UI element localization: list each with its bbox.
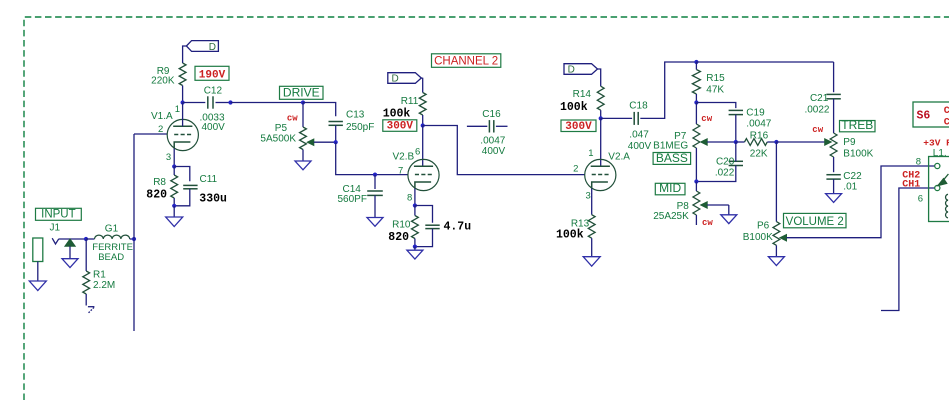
connector J1 label	[50, 223, 61, 234]
wire P5 bottom lead	[302, 150, 304, 162]
label 5A500K	[260, 133, 296, 144]
svg-text:300V: 300V	[565, 121, 592, 133]
resistor R10	[412, 216, 419, 239]
svg-text:820: 820	[388, 231, 409, 244]
svg-text:3: 3	[586, 190, 591, 201]
wire C20 top lead	[735, 142, 737, 161]
svg-text:300V: 300V	[387, 121, 414, 133]
label R9	[157, 66, 170, 77]
svg-text:S6: S6	[917, 110, 931, 123]
label B100K (P6)	[743, 232, 773, 243]
svg-text:C19: C19	[746, 107, 765, 118]
wire C19 bottom lead	[735, 115, 737, 142]
wire P8 top lead	[695, 182, 697, 192]
wire C22 bottom lead	[833, 179, 835, 194]
svg-text:.022: .022	[715, 168, 735, 179]
node V2.A plate	[599, 116, 603, 120]
svg-text:190V: 190V	[199, 70, 226, 82]
label .022	[715, 168, 735, 179]
label 220K	[151, 75, 175, 86]
svg-text:C12: C12	[204, 86, 223, 97]
label S6	[917, 110, 931, 123]
potentiometer P5	[300, 127, 307, 150]
svg-text:560PF: 560PF	[338, 194, 367, 205]
wire R8 leads	[173, 167, 175, 206]
wire P6 bottom lead	[775, 245, 777, 256]
wire J1 tip to node A	[59, 238, 86, 240]
node R15 bottom	[694, 100, 698, 104]
label C12	[204, 86, 223, 97]
label CH1	[902, 179, 920, 190]
potentiometer P7	[693, 124, 700, 148]
label C21	[810, 93, 829, 104]
wire R9 to plate node	[182, 86, 184, 103]
node after C12	[228, 100, 232, 104]
wire C14 bottom lead	[374, 195, 376, 217]
svg-text:D: D	[209, 42, 216, 53]
label .0047 (C19)	[746, 119, 771, 130]
label C16	[482, 109, 501, 120]
capacitor C22	[826, 175, 840, 179]
svg-text:2: 2	[158, 124, 163, 135]
label CH2	[902, 170, 920, 181]
svg-text:C22: C22	[843, 171, 862, 182]
svg-text:R15: R15	[706, 73, 725, 84]
label V2.A	[608, 151, 630, 162]
svg-text:8: 8	[407, 192, 412, 203]
label V1.A	[151, 111, 173, 122]
wire R11 to plate node	[422, 115, 424, 126]
label 400V (C12)	[202, 122, 226, 133]
svg-text:CHANNEL 2: CHANNEL 2	[434, 56, 498, 68]
label FERRITE	[92, 242, 133, 253]
node P5 wiper/C13	[334, 140, 338, 144]
wire flag to R14	[598, 69, 601, 86]
label C19	[746, 107, 765, 118]
pin 6 of relay	[935, 185, 940, 190]
ground at V2.B cathode	[407, 250, 423, 259]
wire flag D to R9	[183, 46, 187, 63]
label 4.7u	[444, 220, 472, 233]
label 330u	[199, 192, 227, 205]
svg-text:.0047: .0047	[480, 135, 505, 146]
svg-text:V2.A: V2.A	[608, 151, 630, 162]
capacitor C14	[367, 191, 383, 195]
label C20	[716, 157, 735, 168]
wire P6 wiper to relay pin 8	[787, 166, 935, 238]
label cw (P7)	[701, 114, 712, 124]
node on grid bus at G1	[132, 237, 136, 241]
capacitor C19	[729, 110, 743, 114]
label BEAD	[98, 252, 124, 263]
wire R14 to plate node	[600, 110, 602, 118]
wiper of P5	[307, 139, 335, 145]
capacitor C21	[826, 94, 840, 98]
svg-text:C16: C16	[482, 109, 501, 120]
label 100k (R14)	[560, 101, 588, 114]
label 820 (R10)	[388, 231, 409, 244]
wire C12 node to DRIVE node	[231, 102, 304, 104]
label P7	[674, 131, 687, 142]
node C14 tap	[373, 173, 377, 177]
wire C11 bottom lead	[174, 189, 190, 206]
node P7/P8/C20	[694, 179, 698, 183]
label R10	[392, 219, 411, 230]
label 300V (V2.B plate)	[383, 120, 417, 133]
pin 6 of V2.B	[415, 146, 420, 157]
ground at P8 wiper	[721, 215, 737, 224]
svg-text:+3V R: +3V R	[923, 137, 949, 148]
label 22K	[750, 148, 768, 159]
tube V2.B	[408, 159, 439, 190]
wire C13 bottom to wiper node	[335, 125, 337, 142]
svg-text:R11: R11	[401, 96, 419, 107]
resistor R9	[179, 63, 186, 86]
capacitor C10 4.7u	[425, 225, 439, 228]
inductor G1 ferrite bead	[95, 235, 130, 239]
capacitor C12	[208, 96, 213, 108]
node DRIVE top	[301, 100, 305, 104]
capacitor C20	[729, 161, 743, 165]
label cw (P5)	[287, 113, 298, 123]
svg-text:J1: J1	[50, 223, 61, 234]
pin 8 of relay	[935, 163, 940, 168]
resistor R11	[419, 93, 426, 116]
svg-text:1: 1	[588, 148, 593, 159]
label .0047 (C16)	[480, 135, 505, 146]
wire V2.B plate to V2.A grid	[423, 126, 585, 175]
capacitor C18	[634, 112, 638, 125]
wire to V1.A cathode ground	[173, 206, 175, 217]
node V2.B plate	[421, 123, 425, 127]
svg-text:C18: C18	[629, 101, 648, 112]
wire R10 leads	[414, 206, 416, 247]
svg-text:C20: C20	[716, 157, 735, 168]
label .047	[629, 129, 649, 140]
label R8	[153, 177, 166, 188]
wire C20 bottom to P7 bottom node	[696, 166, 735, 182]
label P6	[757, 220, 770, 231]
label CH (S6 top)	[944, 106, 949, 117]
label R15	[706, 73, 725, 84]
label +3V R	[923, 137, 949, 148]
node R16/P6/P9-wiper	[774, 140, 778, 144]
wire flag to R11	[421, 78, 422, 93]
wire P8 bottom stub	[695, 215, 697, 225]
wire grid bus to V1.A grid	[134, 133, 167, 135]
flag D (V2.B plate supply)	[388, 73, 422, 85]
label 820 (R8)	[146, 188, 167, 201]
tube V2.A	[585, 159, 616, 190]
pin 8 of V2.B	[407, 192, 412, 203]
node V1.A cathode	[172, 164, 176, 168]
svg-text:CH: CH	[944, 106, 949, 117]
wiper of P8	[701, 202, 729, 208]
wire V2.A cathode lead	[591, 189, 593, 215]
label TREB	[840, 118, 876, 132]
svg-text:8: 8	[916, 156, 921, 167]
ground at V1.A cathode	[166, 217, 183, 227]
pin 7 of V2.B	[398, 165, 403, 176]
label MID	[655, 181, 685, 195]
label DRIVE	[280, 86, 324, 100]
pin 1 of V1.A	[175, 104, 180, 115]
label 8 (relay pin)	[916, 156, 921, 167]
relay coil L1	[946, 194, 948, 218]
svg-text:cw: cw	[701, 114, 712, 124]
svg-text:VOLUME 2: VOLUME 2	[786, 216, 844, 228]
svg-text:B100K: B100K	[843, 148, 873, 159]
svg-text:220K: 220K	[151, 75, 175, 86]
wire R15 node to C19	[696, 103, 735, 109]
connector J1 jack body	[33, 238, 43, 262]
svg-text:400V: 400V	[628, 141, 652, 152]
relay L1 box	[929, 157, 949, 222]
svg-text:5A500K: 5A500K	[260, 133, 296, 144]
wire V1.A cathode lead	[173, 149, 175, 167]
svg-text:330u: 330u	[199, 192, 227, 205]
wire P9 bottom lead	[833, 157, 835, 172]
svg-text:25A25K: 25A25K	[653, 211, 689, 222]
label 6 (relay pin)	[918, 193, 923, 204]
wire R16 leads	[736, 141, 777, 143]
pin 3 of V2.A	[586, 190, 591, 201]
grid bus wire (vertical)	[133, 134, 135, 331]
label C14	[343, 184, 362, 195]
pin 1 of V2.A	[588, 148, 593, 159]
svg-text:R14: R14	[573, 89, 592, 100]
svg-text:R8: R8	[153, 177, 166, 188]
svg-text:C21: C21	[810, 93, 829, 104]
wire P9 wiper run	[776, 141, 825, 143]
svg-text:BEAD: BEAD	[98, 252, 124, 263]
potentiometer P8	[693, 191, 700, 215]
svg-text:.047: .047	[629, 129, 649, 140]
capacitor C11	[183, 185, 197, 188]
svg-text:BASS: BASS	[656, 151, 688, 165]
flag D (V2.A plate supply)	[564, 64, 598, 76]
svg-text:22K: 22K	[750, 148, 768, 159]
svg-text:7: 7	[398, 165, 403, 176]
svg-text:1: 1	[175, 104, 180, 115]
label R11	[401, 96, 419, 107]
label 2.2M	[93, 280, 115, 291]
ground at R13	[583, 257, 600, 267]
wire P6 top lead	[775, 142, 777, 222]
wire node A to G1	[86, 238, 95, 240]
node A (J1/G1/R1 junction)	[84, 237, 88, 241]
svg-text:R10: R10	[392, 219, 411, 230]
svg-text:2.2M: 2.2M	[93, 280, 115, 291]
wire top bus to C21	[696, 61, 833, 63]
label 400V (C18)	[628, 141, 652, 152]
svg-text:cw: cw	[702, 218, 713, 228]
ground at C22	[826, 194, 842, 203]
svg-text:P6: P6	[757, 220, 770, 231]
wire P8 wiper to ground	[728, 205, 730, 215]
node V2.B cathode	[413, 203, 417, 207]
label R1	[93, 270, 106, 281]
label .0022	[804, 104, 829, 115]
svg-text:R16: R16	[750, 131, 769, 142]
svg-text:G1: G1	[105, 224, 119, 235]
svg-text:TREB: TREB	[841, 118, 873, 132]
wiper of P7	[701, 139, 736, 145]
wire C18 to tone stack top	[640, 62, 696, 118]
svg-text:B100K: B100K	[743, 232, 773, 243]
svg-text:820: 820	[146, 188, 167, 201]
wire V2.B cathode lead	[414, 189, 416, 206]
label R14	[573, 89, 592, 100]
label 100k (R11)	[383, 107, 411, 120]
svg-text:CH1: CH1	[902, 179, 920, 190]
svg-text:MID: MID	[659, 181, 681, 195]
label S6 box	[913, 102, 949, 127]
svg-text:P5: P5	[275, 123, 288, 134]
label CHANNEL 2	[432, 54, 501, 68]
resistor R15	[692, 70, 700, 95]
pin 2 of V1.A	[158, 124, 163, 135]
ground at input arrow	[62, 259, 78, 268]
svg-text:.0047: .0047	[746, 119, 771, 130]
chassis ground at R1	[88, 307, 95, 314]
svg-text:V1.A: V1.A	[151, 111, 173, 122]
label 190V (node voltage)	[195, 66, 229, 81]
wire C18 left lead	[601, 117, 632, 119]
svg-text:400V: 400V	[482, 146, 506, 157]
svg-text:D: D	[391, 74, 398, 85]
wire P7 top lead	[695, 103, 697, 125]
label VOLUME 2	[784, 213, 847, 228]
wire to V2.B cathode ground	[414, 247, 416, 251]
label P5	[275, 123, 288, 134]
svg-text:3: 3	[166, 152, 171, 163]
tube V1.A	[167, 119, 198, 150]
svg-text:cw: cw	[287, 113, 298, 123]
node tone stack top	[694, 60, 698, 64]
resistor R16	[745, 139, 768, 146]
label .0033	[200, 112, 225, 123]
resistor R1	[83, 271, 90, 294]
svg-text:cw: cw	[812, 125, 823, 135]
wire C21 to P9	[833, 99, 835, 133]
label CH (S6 bottom)	[944, 117, 949, 128]
svg-text:CH: CH	[944, 117, 949, 128]
wire cathode node to 4.7u cap	[415, 206, 433, 223]
svg-text:D: D	[568, 65, 575, 76]
wire J1 body to ground	[37, 262, 39, 282]
label 100k (R13)	[556, 229, 584, 242]
svg-text:250pF: 250pF	[346, 122, 374, 133]
connector J1 tip contact	[52, 238, 59, 244]
label V2.B	[393, 151, 415, 162]
wire R1 bottom lead	[85, 294, 87, 306]
svg-text:4.7u: 4.7u	[444, 220, 472, 233]
wire 4.7u bottom lead	[415, 229, 433, 247]
svg-text:2: 2	[573, 163, 578, 174]
label B100K (P9)	[843, 148, 873, 159]
wire V1.A plate lead	[182, 103, 184, 127]
label C13	[346, 110, 365, 121]
ground at P5	[295, 161, 311, 170]
label 250pF	[346, 122, 374, 133]
flag D (V1.A plate supply)	[186, 41, 218, 53]
wiper of P9	[825, 139, 832, 145]
label BASS	[653, 151, 691, 165]
svg-text:P9: P9	[843, 137, 856, 148]
svg-text:INPUT: INPUT	[41, 209, 76, 221]
svg-text:6: 6	[918, 193, 923, 204]
label 47K	[706, 84, 724, 95]
wire plate node to C12	[183, 102, 206, 104]
label C22	[843, 171, 862, 182]
wire P7 bottom lead	[695, 148, 697, 182]
wire V2.B plate lead	[422, 126, 424, 167]
resistor R8	[171, 175, 178, 198]
wire relay pin 6 run	[881, 188, 935, 311]
potentiometer P9	[830, 133, 837, 157]
label R13	[571, 218, 590, 229]
label C11	[200, 174, 218, 185]
svg-text:C13: C13	[346, 110, 365, 121]
wire DRIVE node to C13 corner	[303, 103, 336, 117]
wire wiper node to V2.B grid	[336, 142, 409, 174]
wire cathode node to C11	[174, 167, 190, 182]
relay switch arm	[938, 174, 949, 186]
wire C12 to stub node	[216, 102, 231, 104]
ground at P6	[768, 257, 784, 266]
label INPUT	[36, 208, 82, 220]
label 400V (C16)	[482, 146, 506, 157]
node R10 bottom	[413, 245, 417, 249]
svg-text:400V: 400V	[202, 122, 226, 133]
label P9	[843, 137, 856, 148]
svg-text:.01: .01	[843, 181, 857, 192]
svg-text:DRIVE: DRIVE	[283, 86, 320, 100]
label B1MEG	[653, 141, 688, 152]
svg-text:100k: 100k	[383, 107, 411, 120]
wire tone top to C21	[833, 62, 835, 92]
svg-text:100k: 100k	[560, 101, 588, 114]
label 25A25K	[653, 211, 689, 222]
label R16	[750, 131, 769, 142]
svg-text:100k: 100k	[556, 229, 584, 242]
svg-text:47K: 47K	[706, 84, 724, 95]
label C18	[629, 101, 648, 112]
potentiometer P6	[773, 222, 780, 246]
node V1.A plate	[181, 100, 185, 104]
pin 3 of V1.A	[166, 152, 171, 163]
wire R15 leads	[695, 62, 697, 103]
ground at C14	[367, 218, 383, 227]
wire V2.A plate lead	[600, 118, 602, 166]
wire C14 top lead	[374, 175, 376, 189]
wire R13 bottom lead	[591, 238, 593, 257]
capacitor C16 (unconnected spare)	[467, 120, 508, 132]
wiper of P6	[780, 235, 787, 241]
label cw (P9)	[812, 125, 823, 135]
svg-text:C11: C11	[200, 174, 218, 185]
svg-text:L1.: L1.	[933, 148, 947, 159]
resistor R13	[588, 215, 595, 239]
label 300V (V2.A plate)	[561, 120, 596, 133]
label L1.A	[933, 148, 947, 159]
resistor R14	[597, 86, 604, 110]
input reference arrow	[65, 239, 75, 259]
wire G1 to grid bus	[130, 238, 134, 240]
capacitor C13	[329, 122, 343, 126]
svg-text:.0022: .0022	[804, 104, 829, 115]
